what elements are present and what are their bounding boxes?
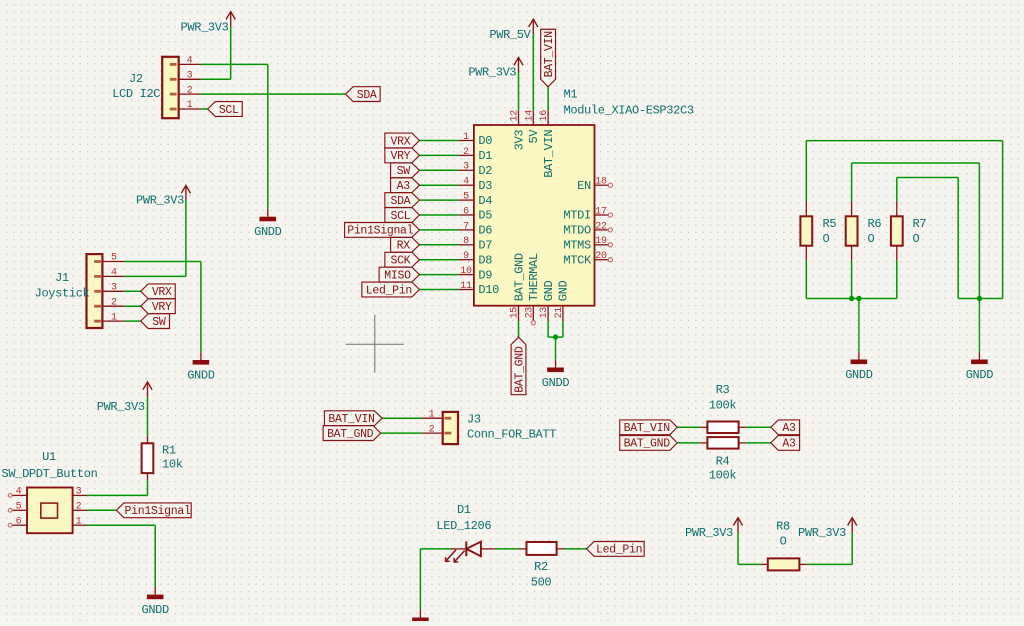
svg-text:BAT_GND: BAT_GND — [624, 438, 671, 451]
svg-text:PWR_3V3: PWR_3V3 — [798, 526, 846, 540]
svg-text:R6: R6 — [868, 217, 882, 231]
svg-text:23: 23 — [524, 307, 535, 319]
M1 left pin 3 D2 — [458, 169, 474, 171]
global label Led_Pin at R2 — [587, 542, 645, 557]
wire PWR_3V3 left down to R8 — [737, 533, 739, 565]
R2 left lead — [519, 548, 527, 550]
power symbol PWR_3V3 at R1 — [147, 383, 149, 397]
svg-text:Led_Pin: Led_Pin — [366, 284, 412, 297]
global label A3 at R3 — [771, 420, 800, 435]
R6 top lead — [851, 201, 853, 216]
svg-text:1: 1 — [187, 100, 193, 111]
global label VRX at M1 — [385, 133, 420, 148]
wire J2 pin2 to SDA — [201, 93, 346, 95]
power symbol PWR_3V3 left of R8 — [737, 519, 739, 533]
wire M1 pin15 to BAT_GND label — [518, 321, 520, 337]
svg-text:4: 4 — [16, 487, 22, 498]
svg-text:4: 4 — [111, 268, 117, 279]
M1 right pin 20 MTCK — [595, 259, 609, 261]
svg-text:MTMS: MTMS — [563, 239, 591, 253]
svg-text:Led_Pin: Led_Pin — [596, 544, 642, 557]
R2 right lead — [557, 548, 564, 550]
M1 top pin 12 3V3 — [518, 110, 520, 125]
wire D1 to GNDD vertical — [419, 549, 421, 610]
wire SCK to M1 D8 — [419, 259, 458, 261]
svg-text:1: 1 — [429, 409, 435, 420]
J1 pin contact 2 — [94, 305, 101, 308]
J2 pin 2 — [178, 93, 200, 95]
svg-text:MTDI: MTDI — [563, 209, 590, 223]
M1 left pin 11 D10 — [458, 289, 474, 291]
global label SCK at M1 — [385, 252, 420, 267]
svg-text:D5: D5 — [478, 209, 492, 223]
svg-text:2: 2 — [111, 297, 117, 308]
J2 pin 4 — [178, 63, 200, 65]
svg-text:THERMAL: THERMAL — [527, 253, 541, 301]
wire J1 pin2 to VRY — [125, 305, 141, 307]
wire up to PWR_3V3 right — [851, 533, 853, 565]
wire R7 bottom down — [896, 261, 898, 299]
U1 right pin 2 — [73, 509, 87, 511]
svg-text:11: 11 — [460, 281, 472, 292]
svg-text:10: 10 — [460, 266, 472, 277]
D1 anode lead — [481, 548, 496, 550]
svg-text:Conn_FOR_BATT: Conn_FOR_BATT — [467, 428, 556, 442]
wire J1 pin4 to PWR_3V3 vertical — [185, 200, 187, 276]
svg-text:A3: A3 — [782, 438, 796, 451]
svg-text:BAT_GND: BAT_GND — [327, 428, 374, 441]
M1 right pin 17 MTDI — [595, 214, 609, 216]
svg-text:MTCK: MTCK — [563, 253, 592, 267]
crosshair marker — [346, 343, 404, 345]
svg-text:15: 15 — [510, 307, 521, 319]
module M1 body — [474, 125, 595, 306]
global label Led_Pin at M1 — [362, 282, 420, 297]
connector J2 body — [162, 57, 179, 118]
J1 pin 4 — [102, 275, 124, 277]
svg-text:Module_XIAO-ESP32C3: Module_XIAO-ESP32C3 — [564, 104, 694, 118]
wire J1 pin4 to PWR_3V3 horizontal — [125, 275, 186, 277]
svg-text:1: 1 — [76, 516, 82, 527]
svg-text:D9: D9 — [478, 268, 492, 282]
svg-text:8: 8 — [463, 236, 469, 247]
svg-text:SDA: SDA — [357, 89, 377, 102]
svg-text:9: 9 — [463, 251, 469, 262]
svg-text:R1: R1 — [162, 444, 176, 458]
svg-text:MISO: MISO — [384, 269, 411, 282]
power symbol PWR_3V3 at J2 — [230, 13, 232, 27]
global label Pin1Signal at U1 — [116, 503, 191, 518]
resistor R6 — [846, 216, 858, 245]
svg-text:PWR_3V3: PWR_3V3 — [468, 65, 516, 79]
wire J1 pin5 to GNDD horizontal — [125, 261, 201, 263]
svg-text:PWR_3V3: PWR_3V3 — [181, 20, 229, 34]
svg-text:D7: D7 — [478, 239, 492, 253]
svg-text:5V: 5V — [527, 129, 541, 144]
svg-text:2: 2 — [463, 147, 469, 158]
svg-text:R3: R3 — [716, 383, 730, 397]
resistor R7 — [891, 216, 903, 245]
svg-text:2: 2 — [187, 85, 193, 96]
R1 top lead — [147, 436, 149, 443]
wire R1 to U1 pin3 vertical — [147, 480, 149, 495]
global label VRX at J1 — [141, 284, 176, 299]
wire M1 pin21 GND down — [562, 321, 564, 337]
wire A3 to M1 D3 — [419, 184, 458, 186]
R8 left lead — [760, 563, 767, 565]
svg-text:BAT_VIN: BAT_VIN — [542, 130, 556, 178]
R6 bottom lead — [851, 246, 853, 261]
M1 left pin 4 D3 — [458, 184, 474, 186]
junction GNDD drop left group — [856, 296, 861, 301]
J2 pin contact 2 — [170, 93, 177, 96]
wire RX to M1 D7 — [419, 244, 458, 246]
J2 pin 1 — [178, 108, 200, 110]
D1 cathode lead — [451, 548, 466, 550]
svg-text:PWR_3V3: PWR_3V3 — [97, 400, 145, 414]
LED D1 — [465, 541, 467, 556]
svg-text:R2: R2 — [534, 560, 548, 574]
M1 bottom pin 23 THERMAL — [532, 306, 534, 321]
svg-text:A3: A3 — [397, 180, 411, 193]
svg-text:VRY: VRY — [390, 150, 410, 163]
svg-text:O: O — [823, 232, 830, 246]
global label MISO at M1 — [379, 267, 419, 282]
svg-text:6: 6 — [463, 206, 469, 217]
M1 left pin 8 D7 — [458, 244, 474, 246]
global label SW at J1 — [141, 314, 170, 329]
power symbol PWR_3V3 right of R8 — [851, 519, 853, 533]
wire M1 pin21 GND across — [556, 336, 563, 338]
svg-text:M1: M1 — [564, 88, 578, 102]
R1 bottom lead — [147, 473, 149, 480]
global label A3 at M1 — [391, 178, 420, 193]
svg-text:BAT_GND: BAT_GND — [512, 253, 526, 301]
svg-text:3: 3 — [111, 283, 117, 294]
wire J2 pin3 to PWR_3V3 vertical — [230, 27, 232, 80]
svg-text:PWR_5V: PWR_5V — [489, 28, 531, 42]
wire to R8 left — [738, 563, 760, 565]
global label BAT_GND below M1 — [511, 337, 526, 395]
svg-text:5: 5 — [16, 502, 22, 513]
svg-text:O: O — [868, 232, 875, 246]
M1 left pin 2 D1 — [458, 154, 474, 156]
J3 pin contact 2 — [444, 432, 451, 435]
svg-text:D3: D3 — [478, 179, 492, 193]
wire BAT_GND to J3 pin2 — [381, 432, 422, 434]
wire PWR_3V3 to R1 — [147, 397, 149, 436]
wire BAT_VIN to R3 — [677, 426, 700, 428]
global label Pin1Signal at M1 — [345, 223, 420, 238]
svg-text:D0: D0 — [478, 134, 492, 148]
U1 inner square — [41, 503, 58, 518]
svg-text:SCL: SCL — [390, 210, 410, 223]
connector J3 body — [443, 412, 458, 444]
svg-text:GNDD: GNDD — [966, 368, 994, 382]
M1 right pin 22 MTDO — [595, 229, 609, 231]
wire J1 pin1 to SW — [125, 320, 141, 322]
wire J1 pin5 to GNDD vertical — [200, 262, 202, 353]
svg-text:5: 5 — [463, 192, 469, 203]
wire BAT_VIN to M1 pin16 — [547, 87, 549, 110]
svg-text:GND: GND — [542, 280, 556, 301]
svg-text:100k: 100k — [709, 469, 737, 483]
J1 pin 2 — [102, 305, 124, 307]
svg-text:GND: GND — [557, 280, 571, 301]
wire U1 pin1 to GNDD vertical — [154, 525, 156, 587]
svg-text:D6: D6 — [478, 224, 492, 238]
ground GNDD below R6 — [858, 299, 860, 352]
J3 pin 1 — [422, 417, 443, 419]
wire MISO to M1 D9 — [419, 274, 458, 276]
wire SDA to M1 D4 — [419, 199, 458, 201]
svg-text:10k: 10k — [162, 458, 183, 472]
wire R7 loop top — [897, 177, 958, 179]
svg-text:R4: R4 — [716, 454, 730, 468]
svg-text:PWR_3V3: PWR_3V3 — [685, 526, 733, 540]
resistor R1 — [142, 443, 154, 473]
svg-text:VRX: VRX — [152, 286, 172, 299]
svg-text:3: 3 — [187, 71, 193, 82]
svg-text:SW_DPDT_Button: SW_DPDT_Button — [2, 467, 98, 481]
wire PWR_5V to M1 pin14 — [532, 34, 534, 110]
wire J2 pin3 to PWR_3V3 horizontal — [201, 78, 231, 80]
svg-text:SW: SW — [397, 165, 411, 178]
svg-text:SCK: SCK — [390, 255, 410, 268]
ground GNDD right group — [978, 299, 980, 352]
wire J2 pin1 to SCL — [201, 108, 208, 110]
svg-text:14: 14 — [524, 110, 535, 122]
wire J2 pin4 to GNDD horizontal — [201, 63, 268, 65]
global label BAT_VIN above M1 — [541, 29, 556, 87]
svg-text:Joystick: Joystick — [35, 287, 90, 301]
wire BAT_VIN to J3 pin1 — [382, 417, 422, 419]
global label VRY at M1 — [385, 148, 420, 163]
svg-text:J1: J1 — [55, 271, 69, 285]
global label RX at M1 — [391, 237, 420, 252]
M1 left pin 9 D8 — [458, 259, 474, 261]
svg-text:Pin1Signal: Pin1Signal — [125, 505, 191, 518]
R4 left lead — [700, 442, 707, 444]
ground GNDD below U1 — [154, 587, 156, 595]
M1 top pin 16 BAT_VIN — [547, 110, 549, 125]
junction GNDD drop right group — [977, 296, 982, 301]
wire Led_Pin to M1 D10 — [419, 289, 458, 291]
svg-text:7: 7 — [463, 221, 469, 232]
wire M1 pin13 GND down — [547, 321, 549, 337]
global label SCL at J2 — [208, 102, 243, 117]
wire J2 pin4 to GNDD vertical — [267, 64, 269, 209]
wire R2 to Led_Pin — [564, 548, 587, 550]
svg-text:6: 6 — [16, 516, 22, 527]
wire R6 top up — [851, 163, 853, 201]
resistor R2 — [527, 542, 557, 555]
resistor R8 — [768, 558, 800, 570]
junction R6 bottom — [849, 296, 854, 301]
R7 bottom lead — [896, 246, 898, 261]
svg-text:1: 1 — [463, 132, 469, 143]
wire R7 top up — [896, 178, 898, 202]
J1 pin 3 — [102, 290, 124, 292]
wire D1 to R2 — [496, 548, 519, 550]
wire R3 to A3 — [746, 426, 771, 428]
wire PWR_3V3 to M1 pin12 — [518, 72, 520, 110]
svg-text:SW: SW — [152, 316, 166, 329]
svg-text:LED_1206: LED_1206 — [436, 519, 491, 533]
J3 pin contact 1 — [444, 417, 451, 420]
wire R6 loop top — [852, 162, 980, 164]
J1 pin contact 1 — [94, 320, 101, 323]
svg-text:J2: J2 — [129, 72, 143, 86]
svg-text:500: 500 — [531, 576, 552, 590]
svg-text:16: 16 — [539, 110, 550, 122]
svg-text:100k: 100k — [709, 399, 737, 413]
M1 bottom pin 21 GND — [562, 306, 564, 321]
wire Pin1Signal to M1 D6 — [419, 229, 458, 231]
power symbol PWR_3V3 at M1 — [518, 59, 520, 73]
R5 bottom lead — [805, 246, 807, 261]
J1 pin 1 — [102, 320, 124, 322]
ground GNDD below D1 — [419, 610, 421, 618]
M1 bottom pin 15 BAT_GND — [518, 306, 520, 321]
svg-text:SDA: SDA — [390, 195, 410, 208]
J1 pin contact 5 — [94, 260, 101, 263]
power symbol PWR_3V3 at J1 — [185, 187, 187, 201]
R7 top lead — [896, 201, 898, 216]
J2 pin 3 — [178, 78, 200, 80]
U1 left pin 4 — [12, 494, 28, 496]
svg-text:O: O — [780, 534, 787, 548]
svg-text:3V3: 3V3 — [512, 130, 526, 151]
global label SDA at J2 — [346, 87, 381, 102]
global label BAT_GND at J3 — [323, 426, 381, 441]
svg-text:19: 19 — [595, 236, 607, 247]
R5 top lead — [805, 201, 807, 216]
wire R5 bottom down — [805, 261, 807, 299]
global label BAT_VIN at J3 — [324, 411, 382, 426]
wire SW to M1 D2 — [419, 169, 458, 171]
svg-text:D4: D4 — [478, 194, 492, 208]
J2 pin contact 4 — [170, 63, 177, 66]
connector J1 body — [87, 254, 103, 328]
U1 right pin 3 — [73, 494, 87, 496]
svg-text:12: 12 — [510, 110, 521, 122]
svg-text:R7: R7 — [913, 217, 927, 231]
svg-text:BAT_VIN: BAT_VIN — [543, 31, 556, 77]
global label A3 at R4 — [771, 436, 800, 451]
svg-text:5: 5 — [111, 253, 117, 264]
svg-text:U1: U1 — [42, 450, 56, 464]
wire bottom bus left group — [806, 298, 897, 300]
wire GNDD corner to D1 — [420, 548, 451, 550]
svg-text:D2: D2 — [478, 164, 492, 178]
svg-text:R5: R5 — [823, 217, 837, 231]
M1 bottom pin 13 GND — [547, 306, 549, 321]
switch U1 body — [27, 488, 73, 534]
U1 left pin 5 — [12, 509, 28, 511]
wire R8 right across — [807, 563, 852, 565]
M1 left pin 7 D6 — [458, 229, 474, 231]
svg-text:3: 3 — [463, 162, 469, 173]
resistor R5 — [800, 216, 812, 245]
M1 left pin 1 D0 — [458, 140, 474, 142]
D1 emission arrows — [454, 551, 464, 562]
power symbol PWR_5V at M1 — [532, 20, 534, 34]
global label VRY at J1 — [141, 299, 176, 314]
U1 left pin 6 — [12, 524, 28, 526]
global label SDA at M1 — [385, 193, 420, 208]
svg-text:BAT_VIN: BAT_VIN — [328, 413, 374, 426]
wire U1 pin3 to R1 horizontal — [87, 494, 148, 496]
svg-text:GNDD: GNDD — [542, 376, 570, 390]
global label SCL at M1 — [385, 208, 420, 223]
wire U1 pin1 to GNDD horizontal — [87, 524, 155, 526]
svg-text:21: 21 — [554, 307, 565, 319]
wire SCL to M1 D5 — [419, 214, 458, 216]
svg-text:17: 17 — [595, 206, 607, 217]
wire R6 bottom down — [851, 261, 853, 299]
svg-text:1: 1 — [111, 312, 117, 323]
wire BAT_GND to R4 — [677, 442, 700, 444]
wire R7 loop right down — [957, 178, 959, 299]
svg-text:VRY: VRY — [152, 301, 172, 314]
svg-text:GNDD: GNDD — [254, 225, 282, 239]
ground GNDD below J1 — [200, 352, 202, 360]
J2 pin contact 1 — [170, 108, 177, 111]
wire M1 pin13 GND across — [548, 336, 555, 338]
wire bottom bus right group — [958, 298, 1002, 300]
svg-text:VRX: VRX — [390, 135, 410, 148]
M1 left pin 5 D4 — [458, 199, 474, 201]
J1 pin contact 4 — [94, 275, 101, 278]
M1 pin 23 unconnected end — [531, 321, 535, 325]
M1 right pin 19 MTMS — [595, 244, 609, 246]
svg-text:PWR_3V3: PWR_3V3 — [136, 193, 184, 207]
svg-text:18: 18 — [595, 177, 607, 188]
junction GND below M1 — [553, 334, 558, 339]
R3 right lead — [739, 426, 746, 428]
wire R5 loop top — [806, 140, 1002, 142]
svg-text:D1: D1 — [457, 503, 471, 517]
M1 right pin 18 EN — [595, 184, 609, 186]
M1 top pin 14 5V — [532, 110, 534, 125]
svg-text:MTDO: MTDO — [563, 224, 591, 238]
svg-text:20: 20 — [595, 251, 607, 262]
svg-text:BAT_VIN: BAT_VIN — [624, 422, 670, 435]
svg-text:GNDD: GNDD — [187, 369, 215, 383]
svg-text:2: 2 — [76, 502, 82, 513]
wire VRX to M1 D0 — [419, 140, 458, 142]
global label SW at M1 — [391, 163, 420, 178]
J1 pin contact 3 — [94, 290, 101, 293]
wire R5 top up — [805, 141, 807, 202]
svg-text:BAT_GND: BAT_GND — [513, 346, 526, 393]
wire R6 loop right down — [978, 163, 980, 299]
U1 right pin 1 — [73, 524, 87, 526]
svg-text:2: 2 — [429, 424, 435, 435]
wire VRY to M1 D1 — [419, 154, 458, 156]
svg-text:D10: D10 — [478, 283, 499, 297]
wire R5 loop right down — [1002, 141, 1004, 299]
svg-text:SCL: SCL — [219, 104, 239, 117]
M1 left pin 10 D9 — [458, 274, 474, 276]
svg-text:R8: R8 — [776, 519, 790, 533]
R8 right lead — [799, 563, 806, 565]
J2 pin contact 3 — [170, 78, 177, 81]
svg-text:A3: A3 — [782, 422, 796, 435]
svg-text:D1: D1 — [478, 149, 492, 163]
svg-text:O: O — [913, 232, 920, 246]
